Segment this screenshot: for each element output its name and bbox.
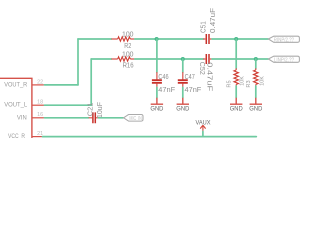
svg-text:10uF: 10uF — [95, 101, 104, 118]
svg-text:VIN: VIN — [17, 114, 27, 121]
wire row1 left segment — [78, 38, 111, 40]
resistor R5 leads — [235, 68, 237, 86]
resistor R5 zigzag — [234, 70, 238, 84]
junction node row1/R5 — [234, 37, 238, 41]
svg-text:R5: R5 — [226, 80, 232, 87]
wire row2 mid segment — [135, 58, 203, 60]
wire row2 right segment — [212, 58, 268, 60]
svg-text:100: 100 — [122, 30, 134, 39]
wire C46 to ground — [156, 87, 158, 98]
wire C46 branch upper — [156, 39, 158, 72]
resistor R2 zigzag — [118, 37, 131, 41]
svg-text:VCC_R: VCC_R — [8, 133, 25, 138]
svg-text:R3: R3 — [246, 80, 252, 87]
pin VOUT_R stub (pin 22) — [32, 84, 45, 86]
capacitor C47 leads — [182, 72, 184, 87]
resistor R3 leads — [255, 68, 257, 86]
wire vertical riser LINP — [90, 59, 92, 105]
wire C47 to ground — [182, 87, 184, 98]
ground GND (C47) — [177, 98, 189, 104]
resistor R16 leads — [111, 58, 134, 60]
capacitor C46 plates — [152, 80, 162, 83]
pin VOUT_L stub (pin 18) — [32, 104, 45, 106]
svg-text:16: 16 — [37, 112, 43, 118]
wire vertical riser RINP — [77, 39, 79, 85]
wire pin22 to corner (net RINP) — [45, 84, 79, 86]
svg-text:100: 100 — [122, 50, 134, 59]
svg-text:MIC_IN: MIC_IN — [129, 116, 142, 122]
svg-text:R16: R16 — [123, 61, 134, 70]
resistor R2 leads — [111, 38, 134, 40]
svg-text:C46: C46 — [158, 72, 168, 81]
wire row1 mid segment — [135, 38, 203, 40]
svg-text:GND: GND — [249, 106, 262, 113]
svg-text:GND: GND — [150, 106, 163, 113]
pin VCC_R stub (pin 21) — [32, 136, 43, 138]
wire C21 to flag — [98, 117, 123, 119]
svg-text:C51: C51 — [199, 21, 208, 33]
resistor R16 zigzag — [118, 57, 131, 61]
IC U1 (partial box, top-right corner visible) — [0, 78, 32, 138]
junction node row2/C47 — [181, 57, 185, 61]
svg-text:R2: R2 — [124, 41, 131, 50]
wire C47 branch upper — [182, 59, 184, 72]
svg-text:0.47uF: 0.47uF — [205, 62, 214, 92]
wire R5 to ground — [235, 86, 237, 98]
wire pin16 segment (net MIC_IN) — [45, 117, 89, 119]
capacitor C51 leads — [203, 38, 212, 40]
svg-text:VOUT_L: VOUT_L — [4, 102, 27, 109]
wire pin21 bottom rail (net VAUX) — [43, 136, 257, 138]
capacitor C51 plates — [206, 34, 209, 44]
capacitor C46 leads — [156, 72, 158, 87]
wire R5 branch upper — [235, 39, 237, 68]
svg-text:GND: GND — [230, 106, 243, 113]
svg-text:10K: 10K — [259, 76, 265, 86]
capacitor C47 plates — [178, 80, 188, 83]
pin VIN stub (pin 16) — [32, 117, 45, 119]
svg-text:47nF: 47nF — [158, 85, 175, 94]
capacitor C21 plates — [93, 112, 95, 123]
capacitor C52 leads — [203, 58, 212, 60]
net flag RINP (xref) — [268, 36, 299, 43]
ground GND (R5) — [230, 98, 242, 104]
svg-text:C21: C21 — [86, 103, 95, 117]
capacitor C21 leads — [89, 117, 99, 119]
net flag MIC_IN — [124, 115, 143, 122]
wire pin18 to corner (net LINP) — [45, 104, 92, 106]
svg-text:LINP/2.??: LINP/2.?? — [274, 57, 294, 63]
ground GND (C46) — [151, 98, 163, 104]
net flag LINP (xref) — [268, 56, 299, 63]
junction node row1/C46 — [155, 37, 159, 41]
wire R3 to ground — [255, 86, 257, 98]
wire row2 left segment — [91, 58, 111, 60]
svg-text:C47: C47 — [185, 72, 195, 81]
svg-text:10K: 10K — [240, 76, 246, 86]
wire row1 right segment — [212, 38, 268, 40]
svg-text:22: 22 — [37, 79, 43, 85]
resistor R3 zigzag — [254, 70, 258, 84]
svg-text:18: 18 — [37, 100, 43, 106]
svg-text:RINP/2.??: RINP/2.?? — [274, 37, 294, 43]
svg-text:47nF: 47nF — [185, 85, 202, 94]
svg-text:0.47uF: 0.47uF — [208, 7, 217, 33]
supply symbol VAUX — [196, 120, 212, 137]
capacitor C52 plates — [206, 54, 209, 64]
ground GND (R3) — [250, 98, 262, 104]
junction node row2/R3 — [254, 57, 258, 61]
svg-text:VOUT_R: VOUT_R — [4, 81, 27, 88]
svg-text:GND: GND — [176, 106, 189, 113]
wire R3 branch upper — [255, 59, 257, 68]
